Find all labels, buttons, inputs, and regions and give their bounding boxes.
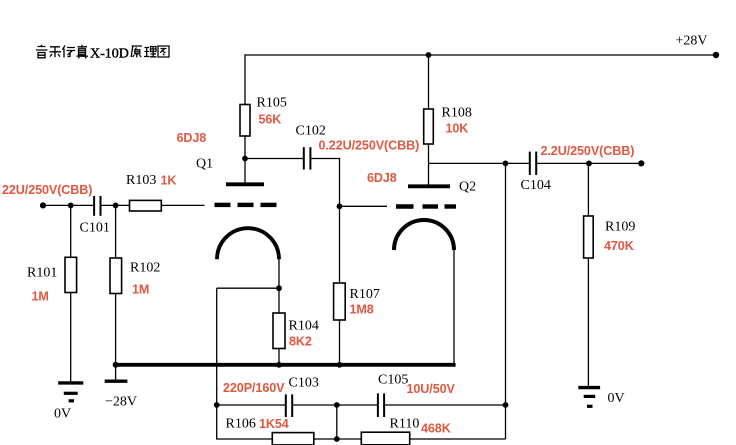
wire feedback left vertical	[216, 288, 218, 405]
resistor R102	[110, 258, 122, 294]
wire R104 bottom lead	[278, 349, 280, 366]
svg-text:R105: R105	[257, 96, 287, 111]
svg-text:6DJ8: 6DJ8	[177, 131, 207, 145]
svg-text:220P/160V: 220P/160V	[223, 381, 285, 395]
wire +28V rail	[244, 54, 716, 56]
svg-text:6DJ8: 6DJ8	[367, 171, 397, 185]
svg-text:1K: 1K	[161, 174, 177, 188]
triode Q2 cathode	[394, 220, 454, 250]
node +28V end	[713, 52, 719, 58]
wire R101 top lead	[70, 205, 72, 257]
node input terminal	[40, 202, 46, 208]
wire R105 top lead	[244, 54, 246, 104]
svg-text:470K: 470K	[604, 239, 634, 253]
wire R108 top lead	[428, 55, 430, 109]
resistor R109	[584, 216, 594, 258]
wire Q1 cathode row	[217, 287, 279, 289]
title 音乐传真X-10D原理图	[36, 45, 169, 62]
wire Q2 cathode leg	[453, 249, 455, 365]
capacitor C103	[286, 394, 292, 417]
svg-text:2.2U/250V(CBB): 2.2U/250V(CBB)	[541, 144, 635, 158]
svg-text:1K54: 1K54	[259, 417, 289, 431]
resistor R106	[272, 433, 314, 445]
svg-text:0V: 0V	[608, 391, 625, 406]
node +28V R108 tap	[426, 52, 432, 58]
wire Q1 cathode leg	[278, 258, 280, 288]
wire R110 right lead	[410, 438, 506, 440]
wire R106 to R110	[314, 438, 362, 440]
resistor R110	[361, 432, 409, 445]
triode Q1 cathode	[217, 228, 279, 259]
svg-text:C104: C104	[521, 178, 551, 193]
svg-text:−28V: −28V	[105, 395, 137, 410]
svg-text:0.22U/250V(CBB): 0.22U/250V(CBB)	[319, 139, 420, 153]
svg-text:R108: R108	[442, 106, 472, 121]
node R104 bus	[276, 362, 282, 368]
triode Q1 grid	[215, 203, 277, 207]
ground left	[58, 383, 83, 401]
wire R103 to Q1 grid	[161, 204, 205, 206]
svg-text:1M: 1M	[132, 283, 149, 297]
wire input	[43, 204, 94, 206]
wire mid vertical C103 node	[336, 405, 338, 439]
svg-text:Q1: Q1	[196, 157, 213, 172]
wire R107 top lead	[339, 206, 341, 283]
node C103 left	[214, 402, 220, 408]
terminal -28V bar	[105, 380, 128, 383]
node Q1 cathode	[276, 285, 282, 291]
resistor R101	[65, 257, 77, 292]
capacitor C101	[94, 196, 100, 216]
triode Q2 grid	[396, 204, 456, 208]
node C105 right	[503, 402, 509, 408]
wire Q2 grid stub	[340, 205, 388, 207]
wire right feedback vertical	[505, 163, 507, 439]
svg-text:C103: C103	[289, 376, 319, 391]
svg-text:8K2: 8K2	[289, 335, 312, 349]
wire R106 left corner	[217, 405, 273, 439]
wire R102 bottom lead	[115, 294, 117, 380]
bus -28V thick	[115, 363, 456, 367]
triode Q2 plate	[408, 184, 450, 188]
node R102 tap	[113, 203, 119, 209]
svg-text:22U/250V(CBB): 22U/250V(CBB)	[2, 183, 92, 197]
wire C103 to C105	[293, 404, 377, 406]
wire Q2 plate to C104	[429, 162, 530, 164]
node R109 tap	[586, 161, 592, 167]
svg-text:R102: R102	[130, 261, 160, 276]
wire C101 to R103	[101, 204, 130, 206]
wire Q1 plate lead	[244, 159, 246, 183]
svg-text:0V: 0V	[54, 407, 71, 422]
resistor R107	[334, 283, 346, 320]
svg-text:R104: R104	[289, 319, 319, 334]
svg-text:Q2: Q2	[459, 180, 476, 195]
capacitor C105	[378, 393, 384, 417]
wire C105 right	[385, 404, 506, 406]
node Q2 grid	[337, 203, 343, 209]
wire C102 right to corner	[311, 159, 340, 207]
ground right	[578, 388, 600, 407]
resistor R103	[130, 200, 162, 211]
wire R109 top lead	[587, 163, 589, 216]
wire R104 top lead	[278, 288, 280, 313]
resistor R104	[273, 313, 285, 349]
wire C102 left	[245, 158, 303, 160]
svg-text:1M8: 1M8	[350, 303, 374, 317]
node C103 right	[334, 402, 340, 408]
wire R101 bottom lead	[70, 293, 72, 382]
svg-text:R103: R103	[126, 173, 156, 188]
wire R107 bottom lead	[339, 320, 341, 365]
wire C104 to output	[537, 162, 641, 164]
resistor R105	[240, 105, 250, 137]
node output end	[638, 160, 644, 166]
wire R105 bottom lead	[244, 136, 246, 159]
node R107 bus	[337, 362, 343, 368]
node Q1 plate	[242, 156, 248, 162]
svg-text:1M: 1M	[32, 290, 49, 304]
svg-text:10K: 10K	[446, 122, 469, 136]
svg-text:R110: R110	[390, 417, 420, 432]
svg-text:468K: 468K	[421, 422, 451, 436]
svg-text:R107: R107	[350, 287, 380, 302]
wire R108 bottom lead	[428, 144, 430, 185]
svg-text:+28V: +28V	[676, 34, 708, 49]
resistor R108	[424, 109, 434, 144]
capacitor C102	[304, 147, 311, 169]
svg-text:R101: R101	[27, 266, 57, 281]
svg-text:56K: 56K	[259, 113, 282, 127]
triode Q1 plate	[226, 182, 264, 186]
svg-text:C102: C102	[296, 124, 326, 139]
svg-text:10U/50V: 10U/50V	[407, 382, 456, 396]
svg-text:R106: R106	[226, 417, 256, 432]
wire C103 row left	[217, 404, 286, 406]
wire R102 top lead	[115, 205, 117, 258]
node Q2 plate out	[503, 161, 509, 167]
svg-text:C105: C105	[378, 373, 408, 388]
svg-text:X-10D: X-10D	[90, 47, 129, 62]
svg-text:C101: C101	[80, 221, 110, 236]
wire R109 bottom lead	[587, 258, 589, 386]
node R101 tap	[68, 203, 74, 209]
node R102 bus	[113, 362, 119, 368]
capacitor C104	[530, 152, 536, 175]
svg-text:R109: R109	[605, 220, 635, 235]
node R106 R110	[334, 436, 340, 442]
